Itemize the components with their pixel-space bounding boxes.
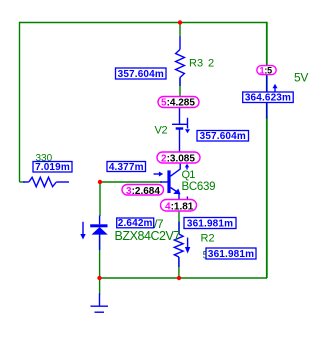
svg-text:2: 2 xyxy=(208,57,214,69)
svg-text:1:5: 1:5 xyxy=(260,65,273,75)
svg-text:5:4.285: 5:4.285 xyxy=(161,98,195,109)
svg-text:7.019m: 7.019m xyxy=(35,162,70,173)
svg-text:4.377m: 4.377m xyxy=(109,162,144,173)
svg-text:Q1: Q1 xyxy=(182,169,196,181)
svg-text:364.623m: 364.623m xyxy=(245,93,291,104)
svg-text:BZX84C2V7: BZX84C2V7 xyxy=(115,229,181,243)
svg-text:357.604m: 357.604m xyxy=(118,69,164,80)
svg-text:2:3.085: 2:3.085 xyxy=(161,153,195,164)
svg-text:361.981m: 361.981m xyxy=(187,219,233,230)
svg-text:3:2.684: 3:2.684 xyxy=(126,186,160,197)
svg-text:4:1.81: 4:1.81 xyxy=(165,201,194,212)
svg-text:BC639: BC639 xyxy=(182,181,216,193)
svg-text:R2: R2 xyxy=(201,233,215,245)
svg-text:5V: 5V xyxy=(294,71,308,85)
svg-text:361.981m: 361.981m xyxy=(208,249,254,260)
svg-text:V2: V2 xyxy=(155,125,168,137)
svg-text:2.642m: 2.642m xyxy=(118,218,153,229)
svg-text:R3: R3 xyxy=(189,57,203,69)
svg-text:357.604m: 357.604m xyxy=(200,131,246,142)
